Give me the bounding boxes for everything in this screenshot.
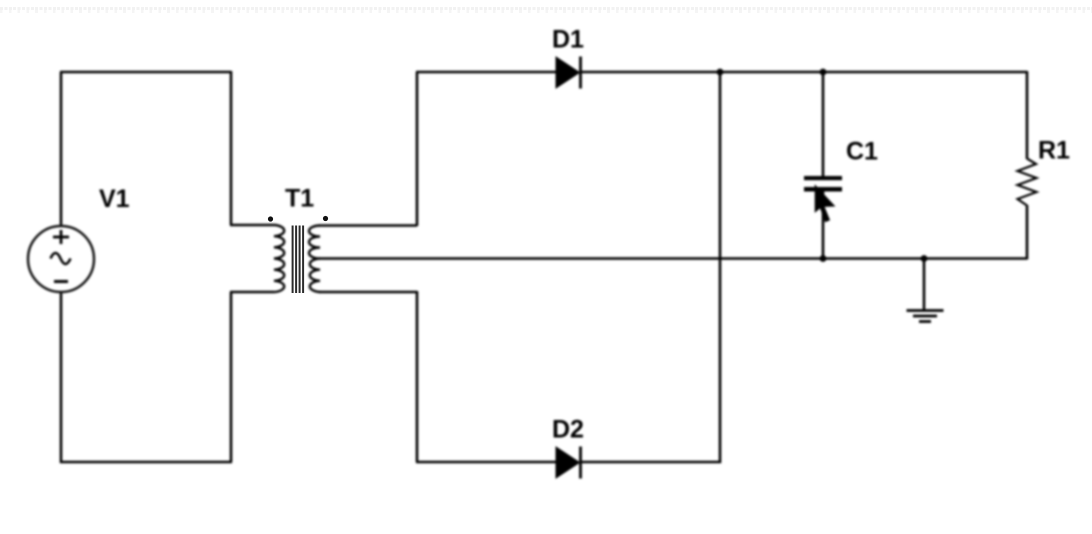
wire secondary bottom lead bbox=[319, 291, 417, 294]
transformer T1 secondary winding bbox=[309, 226, 320, 293]
wire C1 top bbox=[822, 72, 825, 176]
svg-text:R1: R1 bbox=[1038, 137, 1070, 165]
transformer T1 primary winding bbox=[274, 225, 284, 292]
wire R1 bottom lead bbox=[1026, 205, 1029, 260]
svg-text:C1: C1 bbox=[846, 138, 878, 166]
wire top rail D1 to right corner bbox=[580, 71, 1027, 74]
wire V1 top vertical bbox=[60, 72, 63, 226]
wire secondary drop down bbox=[416, 291, 419, 462]
junction node C1 bottom bbox=[820, 255, 827, 262]
svg-text:D2: D2 bbox=[552, 416, 584, 444]
wire primary top lead bbox=[230, 224, 274, 227]
mouse cursor bbox=[815, 185, 835, 222]
wire top-left rail bbox=[60, 71, 231, 74]
wire D2 riser bbox=[719, 71, 722, 463]
wire secondary top lead bbox=[319, 224, 417, 227]
junction node C1 top bbox=[820, 69, 827, 76]
wire V1 bottom vertical bbox=[60, 292, 63, 463]
wire primary bottom lead bbox=[230, 291, 274, 294]
ground bbox=[907, 311, 944, 322]
phase dot right bbox=[323, 216, 328, 221]
wire ground stub bbox=[923, 259, 926, 311]
wire C1 bottom bbox=[822, 191, 825, 259]
resistor R1 bbox=[1018, 159, 1037, 206]
wire bottom-left rail bbox=[60, 461, 232, 464]
svg-text:D1: D1 bbox=[552, 26, 584, 54]
wire top rail to D1 bbox=[416, 71, 556, 74]
phase dot left bbox=[268, 216, 273, 221]
transformer T1 core bbox=[293, 226, 304, 294]
source V1 circle bbox=[28, 226, 94, 292]
diode D2 bbox=[556, 447, 581, 479]
wire bottom rail to D2 bbox=[416, 461, 556, 464]
wire R1 top lead bbox=[1026, 71, 1029, 159]
junction node ground bbox=[921, 255, 928, 262]
faint toolbar edge pattern bbox=[0, 7, 1092, 10]
wire center tap rail bbox=[319, 257, 1027, 260]
capacitor C1 plates bbox=[804, 176, 842, 192]
wire left drop below primary bbox=[230, 292, 233, 462]
wire bottom rail D2 to riser bbox=[580, 461, 721, 464]
V1 plus sign bbox=[53, 230, 69, 244]
wire secondary riser up bbox=[416, 72, 419, 226]
junction node D2/D1 output bbox=[717, 69, 724, 76]
wire left drop to primary top bbox=[230, 71, 233, 225]
svg-text:T1: T1 bbox=[285, 185, 314, 213]
svg-text:V1: V1 bbox=[99, 185, 130, 213]
V1 sine bbox=[51, 253, 71, 264]
V1 minus sign bbox=[54, 280, 68, 283]
diode D1 bbox=[556, 57, 581, 89]
